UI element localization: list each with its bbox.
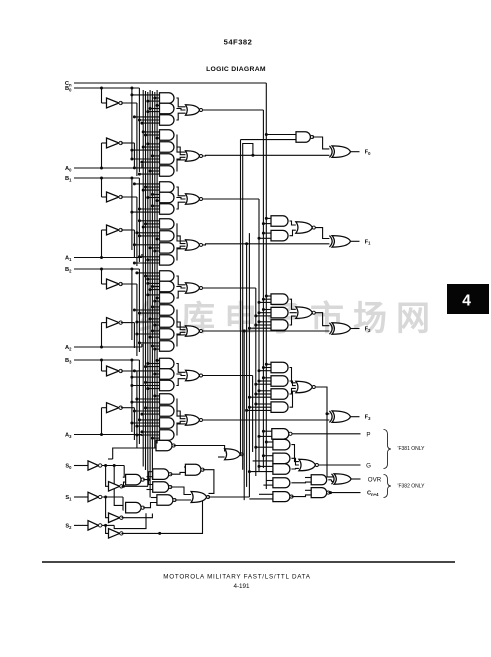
wires G16 inputs [148, 282, 160, 284]
wire RN3 drop to OVR [327, 414, 334, 477]
wire OV1 to XOVR [328, 479, 331, 481]
wires G20 inputs [152, 330, 159, 332]
node D1 branch [147, 478, 150, 481]
and gate G8 [160, 182, 175, 192]
node B2 branch [100, 268, 103, 271]
wires R2_1 inputs [263, 309, 271, 311]
wires R2_0 inputs [266, 295, 271, 297]
wire D5 in2 [151, 497, 157, 499]
node B2 branch2 [130, 268, 133, 271]
svg-text:'F382 ONLY: 'F382 ONLY [398, 484, 426, 490]
wire G-group1B to nor [176, 224, 185, 241]
wires G15 inputs [137, 272, 160, 274]
wire D5 out [175, 499, 192, 501]
and gate G4 [160, 130, 174, 140]
wire nor N2A out [203, 287, 256, 289]
wire P out [292, 433, 361, 435]
node B1 branch [100, 177, 103, 180]
footer rule [42, 561, 455, 563]
wires G18 inputs [152, 306, 159, 308]
wire B3 drop2 [131, 360, 133, 432]
nor gate N1A [186, 194, 200, 204]
decoder nand D5 [157, 495, 173, 506]
and gate G17 [160, 293, 175, 303]
wire S0 out [102, 465, 124, 467]
svg-text:F3: F3 [365, 415, 371, 421]
and gate G10 [160, 204, 174, 214]
wire nor N1A drop [258, 199, 260, 472]
xor XOVR [332, 474, 335, 484]
wire U0 to X0 [312, 137, 329, 149]
nor gate N2A [186, 283, 200, 293]
wires G17 inputs [148, 294, 160, 296]
wires G2 inputs [157, 104, 159, 106]
wire nB0 drop [136, 103, 138, 176]
wires G10 inputs [152, 205, 159, 207]
wire inv2a cont [124, 485, 149, 487]
node S2 a [104, 524, 107, 527]
inverter A1 [107, 225, 120, 235]
svg-text:P: P [366, 431, 370, 438]
wire R2_0 to RN2 [290, 299, 296, 309]
and gate R1_0 [271, 216, 288, 227]
wires G25 inputs [155, 395, 160, 397]
node N1B branch [245, 242, 248, 245]
node A1 branch [100, 256, 103, 259]
wires P inputs [263, 430, 271, 432]
wire B1 drop [138, 178, 140, 262]
wires G13 inputs [134, 244, 159, 246]
wire B1 horizontal [74, 177, 139, 179]
wire nB3 [121, 370, 137, 372]
wires G23 inputs [134, 370, 159, 372]
decoder nor D8 [191, 492, 207, 503]
and gate R3_0 [271, 362, 288, 373]
inverter A0 [107, 138, 120, 148]
wire B0 drop [138, 88, 140, 172]
wire B2 drop [138, 269, 140, 352]
wire nor N0A out [203, 109, 264, 111]
wire nB2 [121, 283, 137, 285]
wire X0 out [351, 151, 360, 153]
wire D8 out [208, 496, 249, 498]
wire R1_0 to RN1 [290, 221, 296, 225]
brace F381 [384, 430, 392, 469]
wire decoder bus v3 [149, 90, 151, 498]
wire S0 drop inv2a [106, 466, 109, 487]
wire B2 horizontal [74, 268, 139, 270]
node Cn tap0 [265, 133, 268, 136]
wire S0 in [74, 465, 88, 467]
decoder nand D1 [126, 474, 141, 485]
wires G11 inputs [139, 220, 159, 222]
wires G3 inputs [134, 116, 159, 118]
and gate G27 [160, 418, 175, 428]
and gate G9 [160, 192, 175, 202]
wire nA1 drop [133, 230, 135, 258]
and gate R2_0 [271, 294, 288, 305]
wire D3 in2 [147, 476, 153, 478]
watermark [138, 299, 430, 338]
wires G8 inputs [134, 183, 159, 185]
wire B0 drop2 [131, 88, 133, 160]
decoder nand D6 [156, 440, 172, 451]
svg-text:4-191: 4-191 [233, 583, 250, 590]
node B1 branch2 [130, 177, 133, 180]
svg-text:网: 网 [396, 300, 430, 338]
wires R1_0 inputs [266, 217, 271, 219]
wire S1 drop inv2b [106, 497, 109, 518]
wire S1 in [74, 496, 88, 498]
wire nor N0B out [203, 154, 330, 157]
node inv2c branch [158, 532, 161, 535]
inverter S2 [88, 521, 99, 531]
wire B2 drop2 [131, 269, 133, 340]
wires G28 inputs [142, 431, 160, 433]
and gate G15 [160, 271, 174, 281]
wire S2 out [102, 524, 114, 526]
wire B3 to inverter [101, 360, 103, 371]
inverter B1 [107, 192, 120, 202]
wire S1 out [102, 496, 123, 498]
node B3 branch2 [130, 359, 133, 362]
wire G out [319, 464, 361, 466]
wires R1_1 inputs [263, 232, 271, 234]
svg-text:A0: A0 [65, 166, 72, 172]
and gate G20 [160, 329, 175, 339]
node N2B branch [243, 330, 246, 333]
inverter B3 [107, 366, 120, 376]
wire B3 drop [138, 360, 140, 444]
wire nor N2A drop [255, 288, 257, 476]
and gate G24 [160, 380, 175, 390]
svg-text:F0: F0 [365, 150, 371, 156]
wire D1 out [143, 472, 153, 480]
wire D1 to D4 [149, 480, 153, 485]
wire bus corner 240.5 [241, 139, 297, 141]
wire box stub [108, 458, 113, 460]
decoder bus box [113, 448, 156, 459]
and gate G13 [160, 243, 175, 253]
wire N2B drop [243, 331, 245, 500]
wire nor N3B out [203, 419, 330, 421]
wire nB2 drop [136, 284, 138, 356]
wire A3 to inverter [101, 408, 103, 435]
wire decoder bus v2 [147, 92, 149, 486]
wire nA2 [121, 322, 135, 324]
and gate R3_1 [271, 376, 288, 387]
wire B0 horizontal [74, 87, 139, 89]
wires G24 inputs [146, 381, 160, 383]
wire GG1 to G [291, 458, 299, 465]
node X3 branch [326, 412, 329, 415]
wire nA3 [121, 407, 135, 409]
wires GG0 inputs [266, 441, 273, 443]
wires GG1 inputs [263, 455, 273, 457]
wire nor N3A drop [252, 376, 254, 453]
svg-text:S0: S0 [65, 464, 72, 470]
and gate G26 [160, 406, 175, 416]
wire A3 horizontal [74, 434, 142, 436]
wires G4 inputs [143, 131, 159, 133]
nor gate N0B [186, 151, 200, 161]
svg-text:B1: B1 [65, 176, 72, 182]
wire N0B branch up [243, 144, 253, 470]
svg-text:F2: F2 [365, 327, 371, 333]
svg-text:A1: A1 [65, 256, 72, 262]
wires OV3 inputs [259, 493, 273, 495]
wire nor N1A out [203, 198, 260, 200]
inverter B2 [107, 279, 120, 289]
wires G1 inputs [132, 94, 160, 96]
wires R2_2 inputs [259, 321, 271, 323]
xor X0 [329, 146, 332, 158]
and gate G11 [160, 219, 174, 229]
wire B3 horizontal [74, 359, 139, 361]
wire CN4 out [328, 492, 360, 494]
and gate G25 [160, 394, 175, 404]
wire D6 out [174, 446, 225, 452]
wire RN3 to X3 [316, 387, 330, 414]
wire nor N0A drop [262, 110, 264, 468]
wires G22 inputs [157, 359, 159, 361]
wires G19 inputs [150, 318, 159, 320]
wire nA2 drop [133, 323, 135, 348]
and gate G18 [160, 305, 175, 315]
nand gate CN4b [311, 488, 327, 498]
wire CN4 in top [305, 489, 311, 491]
and gate G19 [160, 317, 174, 327]
wires R3_2 inputs [259, 390, 271, 392]
node S0 a [104, 464, 107, 467]
svg-text:F1: F1 [365, 239, 371, 245]
wires OV2 inputs [266, 480, 273, 482]
node A0 branch [100, 167, 103, 170]
wire OV2 out [291, 481, 311, 484]
wire G-group1A to nor [176, 187, 185, 196]
and gate R2_1 [271, 307, 288, 318]
and gate GG0 [273, 439, 290, 450]
svg-text:54F382: 54F382 [224, 38, 253, 47]
wire X3 out [351, 416, 360, 418]
and gate G6 [160, 154, 175, 164]
xor X3 [329, 411, 332, 423]
wire Cn to U0 [266, 134, 296, 136]
wire R1_1 to RN1 [290, 230, 296, 236]
svg-text:B3: B3 [65, 358, 72, 364]
wire nB1 drop [136, 197, 138, 266]
wire B1 to inverter [101, 178, 103, 197]
wire OV1 in top [305, 477, 311, 479]
wire D3 out [170, 472, 185, 474]
inverter S1 [88, 492, 99, 502]
wire D7 out [203, 470, 214, 494]
wire R3_1 to RN3 [290, 381, 296, 386]
wire nB3 drop [136, 371, 138, 448]
wire nA1 [121, 229, 135, 231]
and gate R3_2 [271, 389, 288, 400]
node N0B branch [251, 154, 254, 157]
node CN4 branch [329, 491, 332, 494]
node A2 branch [100, 346, 103, 349]
wires G5 inputs [148, 143, 160, 145]
inverter B0 [107, 98, 120, 108]
wire A0 to inverter [101, 143, 103, 168]
svg-text:'F381 ONLY: 'F381 ONLY [398, 446, 426, 452]
nor gate RN3 [296, 381, 313, 393]
and gate G22 [160, 358, 175, 368]
and gate G1 [160, 93, 175, 103]
wire inv2c out [122, 532, 160, 534]
wire S0 drop nand1 [123, 466, 124, 478]
wires G26 inputs [146, 407, 160, 409]
nand gate OV3 [273, 492, 290, 502]
wire A2 to inverter [101, 323, 103, 347]
wire decoder bus v6 [156, 90, 158, 444]
and gate G5 [160, 142, 174, 152]
wire D4 out [170, 487, 191, 495]
wire B2 to inverter [101, 269, 103, 284]
wire S1 to nand2 [122, 497, 124, 510]
xor X2 [329, 323, 332, 334]
wire G-group2A to nor [176, 276, 185, 285]
nor gate N0A [186, 105, 200, 115]
node B0 branch [100, 87, 103, 90]
svg-text:G: G [366, 463, 371, 470]
wire A1 drop [141, 254, 143, 258]
wire inv2a out [122, 482, 126, 486]
and gate R2_2 [271, 320, 288, 331]
and gate GG2 [273, 464, 290, 475]
wire nor N2B out [203, 330, 330, 332]
wire A0 drop [141, 164, 143, 168]
nand P gate [272, 429, 289, 440]
svg-text:S2: S2 [65, 523, 72, 529]
svg-text:4: 4 [462, 293, 471, 310]
wire inv2c cont [160, 501, 203, 534]
decoder nand D7 [185, 464, 201, 475]
svg-text:MOTOROLA MILITARY FAST/LS/TTL: MOTOROLA MILITARY FAST/LS/TTL DATA [163, 574, 310, 581]
and gate G23 [160, 369, 175, 379]
svg-text:LOGIC DIAGRAM: LOGIC DIAGRAM [206, 66, 266, 73]
node inv2a branch [122, 485, 125, 488]
svg-text:Cn+4: Cn+4 [367, 491, 379, 497]
node B3 branch [100, 359, 103, 362]
wire R3_0 to RN3 [290, 368, 296, 383]
inverter S1 second [109, 513, 120, 523]
decoder nand D3 [153, 469, 169, 480]
and gate R3_3 [271, 402, 288, 413]
wires GG2 inputs [259, 465, 273, 467]
node A3 branch [100, 433, 103, 436]
nor gate RN1 [296, 222, 313, 234]
wire XOVR out [351, 478, 360, 480]
wire decoder bus v1 [145, 91, 147, 470]
and gate OV2 [273, 478, 290, 488]
wire Cn horizontal [74, 82, 266, 84]
nor gate N2B [186, 326, 200, 336]
wire G-group0A to nor [176, 98, 185, 107]
wire nA3 drop [133, 408, 135, 440]
wire bus v 240.5 [240, 140, 242, 455]
nor gate RN2 [296, 307, 313, 319]
wire Cn vertical bus [265, 83, 267, 489]
inverter S0 [88, 461, 99, 470]
wire A1 horizontal [74, 257, 142, 259]
wire R2_1 to RN2 [290, 312, 297, 314]
wire N1B drop [246, 244, 248, 487]
wires G12 inputs [137, 232, 160, 234]
wire D9 out [241, 453, 242, 455]
wires R3_0 inputs [266, 363, 271, 365]
wire nor N1B out [203, 244, 330, 245]
wires G6 inputs [152, 155, 159, 157]
wire D4 in2 [147, 489, 153, 491]
and gate R1_1 [271, 230, 288, 241]
wire G-group0B to nor [176, 135, 185, 152]
nor gate N3A [186, 370, 200, 381]
wire A2 drop [141, 344, 143, 347]
decoder nand D4 [153, 482, 169, 493]
wire S2 up [114, 513, 146, 528]
wires G14 inputs [139, 256, 159, 258]
and gate OV1 [311, 475, 327, 485]
and gate G21 [160, 341, 175, 351]
wires G21 inputs [139, 342, 159, 344]
wire OV3 out [291, 495, 311, 497]
wire S0 drop nand2 [114, 466, 123, 506]
wire G-group3A to nor [176, 364, 185, 373]
wire S2 in [74, 524, 88, 526]
decoder nor D9 [225, 449, 241, 460]
wire G-group2B to nor [176, 310, 185, 327]
wire D7 in1 [184, 466, 185, 468]
wire S2 drop inv2c [106, 525, 109, 533]
wire A2 horizontal [74, 346, 142, 348]
section tab 4 [447, 284, 489, 314]
wire nA0 drop [133, 143, 135, 168]
inverter S2 second [109, 529, 120, 539]
wires R3_3 inputs [256, 403, 271, 405]
wire X2 out [351, 328, 360, 330]
wire RN1 to X1 [316, 228, 330, 239]
wire B1 drop2 [131, 178, 133, 250]
wire R3_3 to RN3 [290, 391, 296, 407]
inverter A2 [107, 318, 120, 328]
wires G9 inputs [152, 193, 159, 195]
wire nA0 [121, 142, 135, 144]
wires R3_1 inputs [263, 377, 271, 379]
wire R2_2 to RN2 [290, 316, 296, 325]
svg-text:B2: B2 [65, 267, 72, 273]
and gate G3 [160, 115, 175, 125]
svg-text:OVR: OVR [368, 477, 382, 484]
svg-text:S1: S1 [65, 495, 72, 501]
wire D2 out [143, 503, 157, 508]
wire nB1 [121, 196, 137, 198]
nor gate Ggate [299, 459, 316, 471]
wire D9 in2 [218, 456, 225, 458]
node B0 branch2 [130, 87, 133, 90]
inverter A3 [107, 403, 120, 413]
nor gate N3B [186, 415, 200, 425]
inverter S0 second [109, 482, 120, 492]
wires G7 inputs [134, 167, 159, 169]
wire nB0 [121, 102, 137, 104]
wire decoder bus v0 [142, 90, 144, 467]
wire decoder bus v5 [154, 92, 156, 448]
node S1 a [104, 496, 107, 499]
